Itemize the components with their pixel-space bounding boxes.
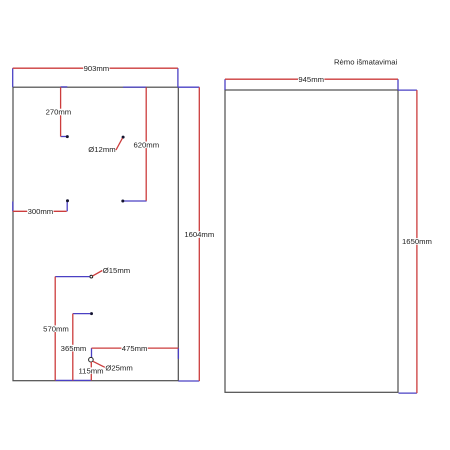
hole D (Ø12) bbox=[121, 200, 124, 203]
dim 270mm label bbox=[45, 108, 71, 117]
hole G (Ø25) bbox=[89, 357, 94, 362]
dim 300mm label bbox=[27, 207, 53, 216]
label Ø25mm bbox=[105, 364, 132, 373]
dim 270mm extension line bottom bbox=[61, 136, 67, 138]
dim 300mm extension line right bbox=[66, 201, 68, 211]
title Remo ismatavimai bbox=[334, 58, 398, 67]
leader Ø12mm bbox=[116, 138, 122, 150]
dim 903mm extension line left bbox=[12, 68, 14, 87]
svg-text:300mm: 300mm bbox=[28, 207, 54, 216]
dim 945mm label bbox=[298, 75, 324, 84]
leader Ø15mm bbox=[93, 271, 103, 276]
dim 475mm label bbox=[121, 344, 147, 353]
dim 903mm line bbox=[13, 67, 178, 69]
right frame outline bbox=[225, 90, 398, 392]
dim 620mm extension line bottom bbox=[123, 200, 147, 202]
svg-text:Ø12mm: Ø12mm bbox=[88, 145, 115, 154]
dim 475mm extension tick right bbox=[177, 348, 179, 359]
dim 945mm extension line left bbox=[224, 79, 226, 90]
dim 1650mm extension line top bbox=[398, 89, 417, 91]
dim 620mm line bbox=[145, 87, 147, 200]
dim 1604mm label bbox=[184, 230, 214, 239]
dim 475mm extension line left bbox=[91, 348, 93, 357]
dim 903mm extension line right bbox=[177, 68, 179, 87]
dim 1604mm extension line top bbox=[178, 86, 199, 88]
dim 1604mm extension line bottom bbox=[178, 380, 199, 382]
svg-text:570mm: 570mm bbox=[43, 324, 69, 333]
leader Ø25mm bbox=[93, 361, 105, 367]
dim 1650mm extension line bottom bbox=[399, 392, 417, 394]
dim 270mm line bbox=[60, 87, 62, 136]
svg-text:1604mm: 1604mm bbox=[184, 230, 214, 239]
svg-text:365mm: 365mm bbox=[61, 344, 87, 353]
dim 1650mm line bbox=[416, 90, 418, 393]
dim 570mm label bbox=[43, 324, 69, 333]
dim 570mm line bbox=[54, 277, 56, 381]
dim 365mm label bbox=[60, 344, 86, 353]
dim 945mm line bbox=[225, 78, 398, 80]
label Ø15mm bbox=[103, 266, 130, 275]
hole B (Ø12) bbox=[66, 199, 69, 202]
dim 300mm extension tick left bbox=[12, 202, 14, 212]
svg-text:270mm: 270mm bbox=[46, 108, 72, 117]
dim 570mm extension line top bbox=[55, 276, 90, 278]
dim 300mm line bbox=[13, 210, 67, 212]
dim 620mm extension tick top bbox=[123, 86, 146, 88]
hole A (Ø12) bbox=[66, 135, 69, 138]
svg-text:475mm: 475mm bbox=[122, 344, 148, 353]
svg-text:620mm: 620mm bbox=[133, 141, 159, 150]
dim 115mm line bbox=[90, 362, 92, 380]
svg-text:Ø25mm: Ø25mm bbox=[105, 364, 132, 373]
hole F (Ø15) bbox=[90, 275, 93, 278]
svg-text:Rėmo išmatavimai: Rėmo išmatavimai bbox=[334, 58, 398, 67]
dim 945mm extension line right bbox=[397, 79, 399, 90]
dim 620mm label bbox=[133, 141, 159, 150]
hole C (Ø12) bbox=[122, 136, 125, 139]
hole E (Ø12) bbox=[90, 312, 93, 315]
dim 115mm label bbox=[78, 366, 104, 375]
label Ø12mm bbox=[88, 145, 115, 154]
dim 475mm line bbox=[92, 347, 179, 349]
dim 365mm line bbox=[72, 314, 74, 381]
dim 570mm extension line bottom bbox=[55, 379, 91, 381]
dim 1604mm line bbox=[198, 87, 200, 381]
svg-text:Ø15mm: Ø15mm bbox=[103, 266, 130, 275]
left panel outline bbox=[13, 87, 178, 381]
dim 365mm extension line top bbox=[73, 313, 91, 315]
dim 1650mm label bbox=[402, 237, 432, 246]
dim 903mm label bbox=[83, 64, 109, 73]
svg-text:1650mm: 1650mm bbox=[402, 237, 432, 246]
dim 270mm extension tick top bbox=[61, 86, 68, 88]
svg-text:945mm: 945mm bbox=[298, 75, 324, 84]
svg-text:903mm: 903mm bbox=[84, 64, 110, 73]
svg-text:115mm: 115mm bbox=[78, 366, 103, 375]
